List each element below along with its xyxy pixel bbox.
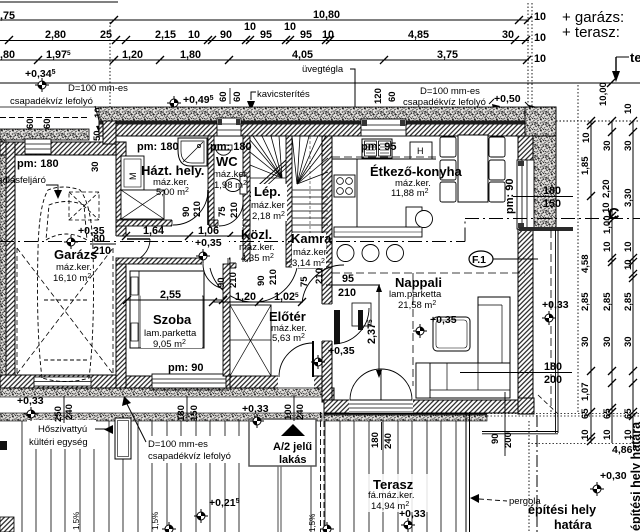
svg-text:+0,33: +0,33 bbox=[542, 299, 569, 311]
door garage->kozl leaf bbox=[127, 238, 150, 240]
svg-text:180: 180 bbox=[176, 405, 187, 421]
right chain ticks bbox=[587, 117, 637, 445]
svg-text:150: 150 bbox=[543, 198, 561, 210]
telek boundary leader top right bbox=[616, 56, 629, 58]
rotated bottom-left dims bbox=[53, 395, 306, 423]
svg-text:fá.máz.ker.: fá.máz.ker. bbox=[368, 490, 414, 501]
svg-text:Előtér: Előtér bbox=[269, 309, 306, 324]
top dimension row 2 bbox=[0, 40, 529, 42]
french door swings bbox=[350, 369, 381, 400]
svg-text:pm: 90: pm: 90 bbox=[504, 179, 516, 214]
svg-text:H: H bbox=[417, 146, 424, 156]
right dim chain lines bbox=[556, 121, 640, 443]
north-east corner stipple block bbox=[525, 107, 556, 136]
svg-text:60: 60 bbox=[232, 91, 243, 102]
kozl elevation bbox=[193, 237, 229, 248]
building site boundary verticals bbox=[528, 421, 530, 532]
svg-text:65: 65 bbox=[623, 408, 634, 419]
svg-text:10: 10 bbox=[581, 132, 592, 143]
szoba bed bbox=[130, 271, 204, 348]
hazt washing machine M bbox=[121, 156, 144, 190]
szoba south wall bbox=[116, 376, 230, 388]
hazt cabinet X bbox=[121, 190, 164, 219]
wall garage/rooms bbox=[116, 142, 126, 388]
dashed grade line left bbox=[0, 117, 90, 119]
garage big X bbox=[17, 248, 113, 374]
svg-text:határa: határa bbox=[554, 518, 593, 532]
svg-text:2,85: 2,85 bbox=[623, 292, 634, 311]
svg-text:240: 240 bbox=[64, 404, 75, 420]
svg-text:200: 200 bbox=[544, 374, 562, 386]
heat pump unit bbox=[115, 418, 131, 459]
bottom-left corner hatch bbox=[0, 517, 14, 532]
svg-text:21,58 m2: 21,58 m2 bbox=[398, 300, 436, 311]
svg-text:2,20: 2,20 bbox=[601, 180, 612, 199]
svg-text:1,64: 1,64 bbox=[143, 225, 164, 237]
svg-text:90: 90 bbox=[216, 277, 227, 288]
svg-text:Közl.: Közl. bbox=[241, 227, 272, 242]
svg-text:kültéri egység: kültéri egység bbox=[29, 437, 88, 448]
svg-text:építési hely: építési hely bbox=[528, 503, 596, 517]
svg-text:1,5%: 1,5% bbox=[308, 514, 317, 532]
kitchen counter edge bbox=[332, 158, 436, 160]
svg-text:+0,35: +0,35 bbox=[430, 314, 457, 326]
svg-text:10: 10 bbox=[623, 103, 634, 114]
gravel band left bbox=[0, 140, 6, 390]
gravel band above garage bbox=[0, 129, 89, 140]
svg-text:Szoba: Szoba bbox=[153, 312, 192, 327]
double door swing kozl/elotér bbox=[210, 268, 297, 302]
svg-text:+0,50: +0,50 bbox=[494, 93, 521, 105]
svg-text:90: 90 bbox=[256, 275, 267, 286]
svg-text:9,05 m2: 9,05 m2 bbox=[153, 339, 186, 350]
svg-text:lam.parketta: lam.parketta bbox=[389, 289, 442, 300]
svg-text:pm: 180: pm: 180 bbox=[137, 141, 179, 153]
svg-text:D=100 mm-es: D=100 mm-es bbox=[148, 439, 208, 450]
svg-text:csapadékvíz lefolyó: csapadékvíz lefolyó bbox=[148, 451, 231, 462]
svg-text:30: 30 bbox=[623, 140, 634, 151]
svg-text:150: 150 bbox=[189, 405, 200, 421]
top dimension row 1 bbox=[0, 2, 529, 20]
svg-text:Nappali: Nappali bbox=[395, 275, 442, 290]
svg-text:WC: WC bbox=[216, 154, 238, 169]
right chain labels col 2 bbox=[598, 82, 613, 440]
svg-text:4,35 m2: 4,35 m2 bbox=[241, 253, 274, 264]
elotér wardrobe X bbox=[230, 305, 271, 376]
svg-text:,80: ,80 bbox=[0, 49, 15, 61]
svg-text:4,58: 4,58 bbox=[580, 255, 591, 274]
nappali french door gap bbox=[349, 399, 413, 414]
svg-text:csapadékvíz lefolyó: csapadékvíz lefolyó bbox=[403, 97, 486, 108]
svg-text:2,55: 2,55 bbox=[160, 289, 181, 301]
wc toilet bbox=[240, 176, 247, 194]
svg-text:csapadékvíz lefolyó: csapadékvíz lefolyó bbox=[10, 96, 93, 107]
svg-text:1,98 m2: 1,98 m2 bbox=[214, 180, 247, 191]
svg-text:25: 25 bbox=[100, 29, 112, 41]
svg-text:kavicsterítés: kavicsterítés bbox=[257, 89, 310, 100]
dotted horizontals bottom right bbox=[487, 413, 640, 415]
svg-text:75: 75 bbox=[299, 276, 310, 287]
svg-text:120: 120 bbox=[373, 88, 384, 104]
room label kamra bbox=[292, 233, 326, 268]
svg-text:10: 10 bbox=[623, 259, 634, 270]
szoba south window 180/150 bbox=[152, 374, 226, 388]
wc south wall bbox=[214, 220, 250, 226]
svg-text:3,75: 3,75 bbox=[437, 49, 458, 61]
svg-text:10: 10 bbox=[534, 11, 546, 23]
svg-text:pm: 95: pm: 95 bbox=[361, 141, 396, 153]
svg-text:80: 80 bbox=[93, 233, 105, 245]
svg-text:10,00: 10,00 bbox=[598, 82, 609, 106]
stairs treads bbox=[292, 136, 328, 261]
svg-text:1,5%: 1,5% bbox=[72, 512, 81, 530]
svg-text:+ terasz:: + terasz: bbox=[562, 24, 620, 41]
svg-text:180: 180 bbox=[370, 432, 381, 448]
svg-text:1,5%: 1,5% bbox=[151, 512, 160, 530]
svg-text:te: te bbox=[630, 50, 640, 65]
svg-text:2,18 m2: 2,18 m2 bbox=[252, 211, 285, 222]
terasz labels bbox=[366, 474, 436, 512]
svg-text:2,80: 2,80 bbox=[45, 29, 66, 41]
svg-text:100: 100 bbox=[283, 404, 294, 420]
svg-text:Lép.: Lép. bbox=[254, 184, 281, 199]
svg-text:padlásfeljáró: padlásfeljáró bbox=[0, 175, 46, 186]
svg-text:pm: 90: pm: 90 bbox=[168, 362, 203, 374]
south edge band + gravel below nappali bbox=[324, 413, 487, 415]
svg-text:10: 10 bbox=[188, 29, 200, 41]
svg-text:F.1: F.1 bbox=[472, 254, 486, 266]
svg-text:30: 30 bbox=[90, 161, 101, 172]
wall kamra/kitchen + entry east wall bbox=[322, 136, 332, 400]
kitchen island bbox=[334, 227, 422, 237]
svg-text:65: 65 bbox=[580, 408, 591, 419]
szoba north wall bbox=[116, 258, 230, 264]
east window 180/150 bbox=[517, 160, 534, 229]
heat pump annotation bbox=[27, 420, 96, 449]
terasz east edge double line bbox=[555, 230, 557, 412]
hazt shower bbox=[178, 138, 207, 166]
wall hazt/wc bbox=[208, 136, 214, 226]
svg-text:Étkező-konyha: Étkező-konyha bbox=[370, 164, 463, 179]
elotér entry door gap bbox=[278, 375, 314, 389]
step wall elotér/nappali bbox=[322, 388, 334, 402]
terrace planks right bbox=[311, 421, 456, 532]
svg-text:200: 200 bbox=[503, 432, 514, 448]
front door leaf (open) bbox=[334, 310, 340, 344]
terrace SE corner outline bbox=[555, 412, 557, 433]
svg-text:16,10 m2: 16,10 m2 bbox=[53, 273, 91, 284]
svg-text:60: 60 bbox=[387, 91, 398, 102]
svg-text:90: 90 bbox=[490, 433, 501, 444]
nappali south wall bbox=[324, 400, 534, 413]
svg-text:2,85: 2,85 bbox=[602, 292, 613, 311]
svg-text:180: 180 bbox=[543, 185, 561, 197]
svg-text:95: 95 bbox=[342, 273, 354, 285]
gravel band south bbox=[0, 388, 328, 397]
svg-text:máz.ker: máz.ker bbox=[293, 247, 327, 258]
garage north window bbox=[25, 139, 51, 154]
svg-text:10: 10 bbox=[322, 29, 334, 41]
svg-text:1,20: 1,20 bbox=[122, 49, 143, 61]
svg-text:5,63 m2: 5,63 m2 bbox=[272, 333, 305, 344]
roof projection dashed lines bbox=[332, 157, 551, 412]
svg-text:10: 10 bbox=[580, 429, 591, 440]
svg-text:210: 210 bbox=[268, 269, 279, 285]
svg-text:10: 10 bbox=[623, 241, 634, 252]
svg-text:+0,33: +0,33 bbox=[242, 403, 269, 415]
wc sink bbox=[215, 145, 232, 150]
svg-text:250: 250 bbox=[53, 406, 64, 422]
svg-text:üvegtégla: üvegtégla bbox=[302, 64, 344, 75]
stairs right flight fan bbox=[292, 136, 328, 184]
svg-text:Garázs: Garázs bbox=[54, 247, 97, 262]
svg-text:210: 210 bbox=[338, 287, 356, 299]
svg-text:30: 30 bbox=[502, 29, 514, 41]
svg-text:30: 30 bbox=[580, 336, 591, 347]
window WC north bbox=[217, 118, 241, 136]
wall wc/stairs bbox=[243, 136, 250, 264]
kitchen H appliance bbox=[410, 142, 432, 159]
main north wall bbox=[99, 118, 525, 136]
svg-text:pm: 180: pm: 180 bbox=[17, 158, 59, 170]
dotted setback lines bbox=[110, 3, 578, 412]
svg-text:11,88 m2: 11,88 m2 bbox=[391, 188, 429, 199]
rotated small dims top-left bbox=[25, 88, 398, 172]
stairs middle wall bbox=[286, 136, 292, 264]
svg-text:10: 10 bbox=[534, 53, 546, 65]
gravel band top bbox=[99, 107, 556, 121]
svg-text:D=100 mm-es: D=100 mm-es bbox=[68, 83, 128, 94]
west wall bbox=[6, 142, 15, 375]
svg-text:+0,35: +0,35 bbox=[195, 237, 222, 249]
svg-text:30: 30 bbox=[623, 336, 634, 347]
svg-text:+0,35: +0,35 bbox=[328, 345, 355, 357]
garage north wall bbox=[0, 142, 116, 155]
svg-text:60: 60 bbox=[42, 118, 53, 129]
svg-text:4,85: 4,85 bbox=[408, 29, 429, 41]
svg-text:+0,215: +0,215 bbox=[209, 497, 240, 509]
svg-text:2,15: 2,15 bbox=[155, 29, 176, 41]
top dimension row 3 bbox=[0, 59, 529, 61]
svg-text:210: 210 bbox=[192, 201, 203, 217]
svg-text:2,85: 2,85 bbox=[580, 292, 591, 311]
nappali SE corner block bbox=[518, 398, 534, 414]
svg-text:+0,33: +0,33 bbox=[399, 508, 426, 520]
dining chairs left bbox=[440, 137, 505, 202]
svg-text:máz.ker: máz.ker bbox=[213, 169, 247, 180]
svg-text:Hőszivattyú: Hőszivattyú bbox=[38, 424, 87, 435]
svg-text:95: 95 bbox=[260, 29, 272, 41]
elevation marks bottom bbox=[162, 522, 176, 532]
svg-text:10: 10 bbox=[534, 32, 546, 44]
svg-text:210: 210 bbox=[314, 268, 325, 284]
svg-text:A/2 jelű: A/2 jelű bbox=[273, 441, 312, 453]
elotér south wall bbox=[230, 376, 330, 388]
svg-text:1,20: 1,20 bbox=[235, 291, 256, 303]
entrance triangle bbox=[281, 424, 305, 436]
svg-text:210: 210 bbox=[228, 272, 239, 288]
elevation +0,49.5 bbox=[167, 96, 181, 110]
terrace planks left bbox=[22, 421, 239, 532]
svg-text:D=100 mm-es: D=100 mm-es bbox=[420, 86, 480, 97]
survey point bbox=[35, 78, 49, 92]
svg-text:+0,30: +0,30 bbox=[600, 470, 627, 482]
wall szoba/elotér bbox=[223, 264, 230, 376]
svg-text:10: 10 bbox=[623, 429, 634, 440]
svg-text:10: 10 bbox=[244, 21, 256, 33]
room label lepcso bbox=[251, 184, 287, 221]
svg-text:90: 90 bbox=[220, 29, 232, 41]
svg-text:Házt. hely.: Házt. hely. bbox=[141, 163, 204, 178]
svg-text:pm: 180: pm: 180 bbox=[210, 141, 252, 153]
svg-text:240: 240 bbox=[383, 433, 394, 449]
bar stools bbox=[337, 245, 354, 262]
svg-text:180: 180 bbox=[544, 361, 562, 373]
svg-text:4,05: 4,05 bbox=[292, 49, 313, 61]
east wall bbox=[518, 136, 533, 414]
svg-text:1,80: 1,80 bbox=[180, 49, 201, 61]
svg-text:90: 90 bbox=[181, 206, 192, 217]
svg-text:5,00 m2: 5,00 m2 bbox=[156, 187, 189, 198]
svg-text:10: 10 bbox=[602, 429, 613, 440]
svg-text:+0,33: +0,33 bbox=[17, 395, 44, 407]
svg-text:máz.ker.: máz.ker. bbox=[56, 262, 92, 273]
svg-text:3,14 m2: 3,14 m2 bbox=[292, 258, 325, 269]
svg-text:75: 75 bbox=[217, 206, 228, 217]
svg-text:65: 65 bbox=[602, 408, 613, 419]
svg-text:lakás: lakás bbox=[279, 454, 307, 466]
svg-text:30: 30 bbox=[602, 140, 613, 151]
garage car dashed bbox=[38, 187, 94, 382]
svg-text:+0,345: +0,345 bbox=[25, 68, 56, 80]
entry door leaf + swing bbox=[312, 341, 314, 377]
svg-text:C: C bbox=[608, 206, 620, 223]
svg-text:30: 30 bbox=[602, 336, 613, 347]
svg-text:Kamra: Kamra bbox=[291, 231, 332, 246]
svg-text:+0,495: +0,495 bbox=[183, 94, 214, 106]
hazt.hely south wall bbox=[116, 220, 214, 226]
svg-text:10,80: 10,80 bbox=[313, 9, 340, 21]
dining table bbox=[458, 135, 488, 202]
eaves line bbox=[0, 82, 640, 84]
door kozl->szoba bbox=[202, 257, 229, 265]
svg-text:95: 95 bbox=[300, 29, 312, 41]
nappali coffee table bbox=[433, 317, 470, 351]
svg-text:3,30: 3,30 bbox=[623, 189, 634, 208]
svg-text:60: 60 bbox=[218, 91, 229, 102]
downpipe annotation bottom bbox=[145, 436, 243, 463]
svg-text:210: 210 bbox=[229, 202, 240, 218]
east window sill bar bbox=[519, 227, 573, 231]
rotated 180/240 french door bbox=[370, 422, 394, 450]
svg-text:240: 240 bbox=[295, 404, 306, 420]
svg-text:,75: ,75 bbox=[0, 10, 15, 22]
garage clearance X box bbox=[69, 192, 99, 220]
cooktop bbox=[334, 175, 355, 197]
svg-text:210: 210 bbox=[93, 245, 111, 257]
gravel band terrace edge bbox=[0, 413, 322, 421]
window kitchen north bbox=[361, 119, 406, 136]
garage south wall bbox=[0, 375, 116, 388]
svg-text:lam.parketta: lam.parketta bbox=[144, 328, 197, 339]
room label szoba bbox=[141, 287, 202, 348]
svg-text:1,07: 1,07 bbox=[580, 383, 591, 402]
svg-text:M: M bbox=[128, 173, 138, 181]
svg-text:60: 60 bbox=[25, 118, 36, 129]
section line C-C bbox=[0, 219, 640, 242]
stairs left flight fan bbox=[250, 136, 286, 178]
right chain labels col 3 bbox=[623, 103, 634, 440]
svg-text:máz.ker.: máz.ker. bbox=[239, 242, 275, 253]
right chain labels col 1 bbox=[580, 132, 592, 440]
svg-text:1,06: 1,06 bbox=[198, 225, 219, 237]
svg-text:10: 10 bbox=[284, 21, 296, 33]
apartment split dashed bbox=[320, 412, 322, 532]
rotated door labels top row bbox=[181, 201, 325, 288]
F.1 marker bbox=[469, 251, 493, 267]
nappali sofa L bbox=[478, 297, 510, 363]
stairs handrail diagonal bbox=[250, 160, 286, 193]
pergola edge bbox=[465, 412, 467, 532]
A/2 label box bbox=[249, 419, 316, 466]
svg-text:10: 10 bbox=[602, 241, 613, 252]
kitchen sink bbox=[362, 139, 392, 158]
svg-text:máz.ker: máz.ker bbox=[251, 200, 285, 211]
kozl/elotér wall with double doors bbox=[230, 263, 322, 268]
door hazt leaf bbox=[172, 224, 174, 225]
kamra south wall bbox=[286, 262, 332, 267]
nappali 2,37 dim bbox=[378, 286, 380, 376]
rotated 90/200 bottom right bbox=[490, 392, 514, 456]
svg-text:1,85: 1,85 bbox=[580, 156, 591, 175]
